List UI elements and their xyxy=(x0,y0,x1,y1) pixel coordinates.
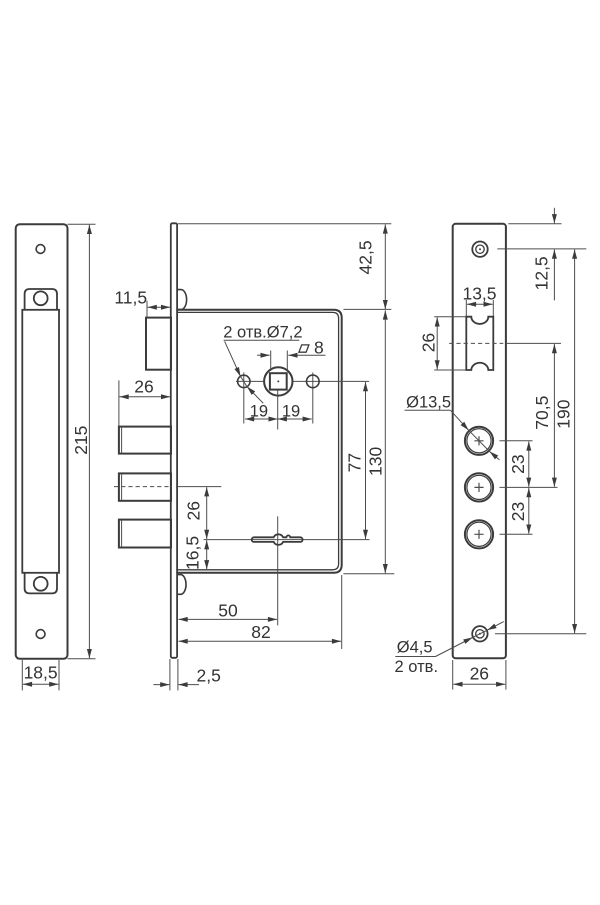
bolt 3 xyxy=(119,520,171,548)
keyhole horizontal centerline xyxy=(204,539,370,541)
svg-text:190: 190 xyxy=(554,399,574,428)
keyhole vertical centerline xyxy=(277,516,279,625)
svg-text:2,5: 2,5 xyxy=(197,666,221,686)
extension line hole 1 xyxy=(500,440,533,442)
extension line body top right xyxy=(344,308,392,310)
dimension 42,5 line xyxy=(384,224,386,309)
svg-text:130: 130 xyxy=(365,447,385,476)
label 13,5 underline xyxy=(405,409,451,411)
cylinder hole 3 outer xyxy=(465,520,493,548)
svg-text:26: 26 xyxy=(134,376,153,396)
extension line strike plate top xyxy=(68,223,96,225)
cylinder hole 1 cross xyxy=(474,436,483,445)
dimension 70,5 line xyxy=(553,344,555,487)
svg-text:82: 82 xyxy=(251,622,270,642)
dimension 16,5 vertical line xyxy=(206,540,208,569)
extension line hole 2 xyxy=(500,486,558,488)
dimension 13,5 line xyxy=(467,303,493,305)
dimension 26 left line xyxy=(120,396,171,398)
extension line 82 right xyxy=(341,575,343,649)
svg-text:Ø13,5: Ø13,5 xyxy=(406,394,451,412)
dimension 26 vertical line xyxy=(206,487,208,539)
cylinder hole 3 cross xyxy=(474,530,483,539)
label 2 otv 7,2 underline xyxy=(224,339,300,341)
strike plate outline xyxy=(16,224,68,659)
svg-text:2 отв.Ø7,2: 2 отв.Ø7,2 xyxy=(223,323,302,341)
dimension 11,5 line xyxy=(148,306,171,308)
extension line window right top xyxy=(492,300,494,316)
label 13,5 leader upper xyxy=(451,410,469,430)
label 13,5 leader lower xyxy=(490,452,500,460)
cylinder hole 2 cross xyxy=(474,483,483,492)
dimension 18,5 line xyxy=(23,683,59,685)
svg-text:Ø4,5: Ø4,5 xyxy=(397,639,433,657)
lock body inner outline xyxy=(176,312,338,569)
label 13,5 leader middle xyxy=(469,430,490,451)
front faceplate bottom screw inner xyxy=(476,630,484,638)
strike plate top screw hole xyxy=(36,245,45,254)
svg-text:16,5: 16,5 xyxy=(183,536,203,570)
extension line window left top xyxy=(465,300,467,316)
svg-text:2 отв.: 2 отв. xyxy=(395,658,438,676)
square extension line right xyxy=(286,351,288,372)
bolt 1 xyxy=(119,427,171,454)
svg-text:19: 19 xyxy=(250,403,268,421)
cylinder hole 2 outer xyxy=(465,473,493,501)
square extension line left xyxy=(270,351,272,372)
extension line top screw center xyxy=(497,248,586,250)
svg-text:13,5: 13,5 xyxy=(462,284,496,304)
label 4,5 leader upper xyxy=(487,622,504,631)
dimension 82 line xyxy=(179,640,342,642)
extension line bottom screw center xyxy=(495,633,586,635)
extension line 26 left xyxy=(118,380,120,426)
label 7,2 leader upper xyxy=(225,341,241,376)
latch window dashed centerline xyxy=(449,342,503,344)
extension line 26 bottom left xyxy=(452,660,454,690)
dimension 8 left arrow xyxy=(257,354,270,356)
dimension 12,5 top arrow xyxy=(553,208,555,224)
spindle square hole xyxy=(270,373,287,389)
strike plate bottom keeper circle xyxy=(34,577,48,591)
svg-text:19: 19 xyxy=(282,403,300,421)
lock faceplate strip xyxy=(171,223,177,658)
bolt 3 face line xyxy=(121,520,123,548)
svg-text:215: 215 xyxy=(71,426,91,455)
bottom latch lug xyxy=(178,575,187,595)
svg-text:23: 23 xyxy=(508,502,528,521)
dimension 12,5 bottom arrow xyxy=(553,250,555,301)
square symbol xyxy=(299,345,309,352)
cylinder hole 1 outer xyxy=(465,427,493,455)
top latch lug xyxy=(178,290,187,310)
dimension 19 left line xyxy=(245,418,278,420)
svg-text:50: 50 xyxy=(218,601,238,621)
extension line window top left xyxy=(434,316,465,318)
dimension 215 line xyxy=(88,225,90,658)
svg-text:23: 23 xyxy=(508,454,528,473)
extension line strip top xyxy=(178,223,391,225)
cylinder hole 1 inner xyxy=(467,429,491,453)
extension line 2,5 left xyxy=(169,659,171,690)
extension line 18,5 right xyxy=(58,660,60,690)
svg-text:26: 26 xyxy=(418,333,438,352)
label 4,5 leader middle xyxy=(473,630,487,637)
strike plate bottom keeper bracket xyxy=(25,573,57,593)
holes horizontal centerline xyxy=(236,380,369,382)
dimension 23 lower line xyxy=(528,488,530,534)
label 7,2 leader middle xyxy=(241,376,248,386)
bolt 2 dashed centerline xyxy=(114,486,172,488)
extension line 18,5 left xyxy=(21,660,23,690)
bolt 2 xyxy=(119,473,171,500)
cylinder hole 2 inner xyxy=(467,475,491,499)
extension line window bottom left xyxy=(434,369,465,371)
strike plate top keeper circle xyxy=(34,291,48,305)
strike plate top keeper bracket xyxy=(25,289,57,310)
dimension 23 upper line xyxy=(528,441,530,486)
left fixing hole vertical centerline xyxy=(243,373,245,424)
latch window centerline extension right xyxy=(506,342,561,344)
extension line 2,5 right xyxy=(177,659,179,690)
keyhole outline xyxy=(252,534,303,545)
latch window xyxy=(466,317,493,370)
front faceplate top screw dot xyxy=(479,248,481,250)
lock body outer outline xyxy=(176,310,341,573)
bolt 1 face line xyxy=(121,427,123,454)
spindle hole circle xyxy=(264,367,292,395)
bolt 2 face line xyxy=(121,473,123,500)
dimension 2,5 right arrow xyxy=(178,684,199,686)
spindle center dot xyxy=(277,380,279,382)
front faceplate outline xyxy=(453,224,506,659)
dimension 130 line xyxy=(384,310,386,573)
extension line 26 bottom right xyxy=(505,660,507,690)
svg-text:77: 77 xyxy=(345,453,365,472)
svg-text:70,5: 70,5 xyxy=(532,396,552,430)
svg-text:11,5: 11,5 xyxy=(114,288,147,308)
dimension 26 bottom line xyxy=(453,683,505,685)
spindle square vertical extension xyxy=(277,391,279,430)
dimension 19 right line xyxy=(278,418,312,420)
right fixing hole xyxy=(307,375,320,388)
svg-text:26: 26 xyxy=(470,664,489,684)
extension line body bottom xyxy=(343,573,394,575)
label 4,5 leader lower xyxy=(436,638,473,657)
left fixing hole xyxy=(238,375,250,387)
svg-text:26: 26 xyxy=(184,501,204,520)
dimension 8 right arrow xyxy=(288,354,325,356)
dimension 77 line xyxy=(365,382,367,539)
dimension 50 line xyxy=(179,618,278,620)
svg-text:42,5: 42,5 xyxy=(356,240,376,274)
front faceplate bottom screw outer xyxy=(472,626,487,641)
svg-text:8: 8 xyxy=(314,337,324,357)
label 7,2 leader lower xyxy=(247,387,263,404)
label 4,5 underline xyxy=(395,656,435,658)
front faceplate top screw outer xyxy=(472,242,487,257)
extension line faceplate top xyxy=(508,223,561,225)
auxiliary bolt block xyxy=(146,318,171,370)
svg-text:12,5: 12,5 xyxy=(531,256,551,290)
svg-text:18,5: 18,5 xyxy=(24,663,58,683)
dimension 26 window line xyxy=(436,317,438,369)
bolt 2 centerline inside body xyxy=(176,486,221,488)
dimension 190 line xyxy=(574,250,576,634)
dimension 2,5 left arrow xyxy=(153,684,169,686)
right fixing hole vertical centerline xyxy=(312,373,314,424)
front faceplate top screw inner xyxy=(476,245,484,253)
cylinder hole 3 inner xyxy=(467,522,491,546)
extension line hole 3 xyxy=(500,533,533,535)
strike plate inner cutout xyxy=(22,310,59,573)
extension line strike plate bottom xyxy=(68,658,96,660)
front faceplate bottom screw dot xyxy=(479,633,481,635)
extension line 11,5 xyxy=(146,301,148,318)
strike plate bottom screw hole xyxy=(36,630,45,639)
